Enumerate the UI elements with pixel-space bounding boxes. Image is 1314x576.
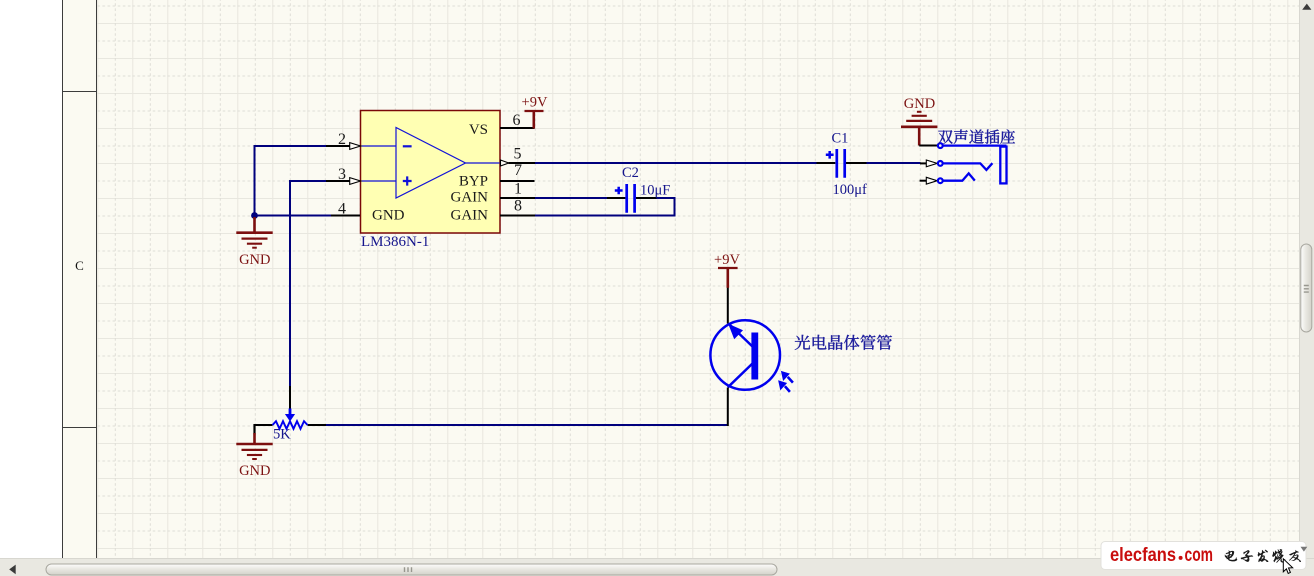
svg-text:VS: VS — [469, 122, 488, 138]
capacitor C1 — [817, 149, 867, 178]
svg-text:10μF: 10μF — [640, 183, 670, 199]
svg-text:7: 7 — [514, 162, 522, 179]
pin 4 — [331, 201, 360, 218]
watermark Chinese script — [1225, 547, 1308, 563]
junction node — [251, 212, 258, 219]
svg-text:LM386N-1: LM386N-1 — [361, 234, 429, 250]
ground GND2 pot — [236, 424, 272, 479]
op-amp U1 LM386N-1 body — [361, 111, 501, 234]
svg-text:8: 8 — [514, 197, 522, 214]
svg-text:elecfans: elecfans — [1110, 544, 1176, 566]
svg-text:5: 5 — [514, 146, 522, 163]
svg-text:3: 3 — [338, 166, 346, 183]
pin 8 — [500, 197, 535, 215]
svg-text:6: 6 — [513, 112, 521, 129]
wire pin3 horizontal — [290, 180, 330, 182]
wire pin5 output run — [534, 162, 817, 164]
pin 3 — [326, 166, 361, 184]
power +9V at Q1 — [714, 252, 740, 288]
mouse cursor — [1283, 559, 1292, 574]
light arrows into Q1 — [779, 372, 793, 392]
capacitor C2 — [607, 184, 657, 213]
svg-text:100μf: 100μf — [833, 182, 868, 198]
wire pin1 to C2 — [534, 197, 607, 199]
svg-text:+9V: +9V — [522, 95, 548, 111]
svg-text:C2: C2 — [622, 165, 639, 181]
wire +9V to Q1 collector — [727, 287, 729, 324]
net label stereo jack Chinese — [938, 130, 953, 144]
pin 1 — [500, 180, 535, 198]
svg-text:2: 2 — [338, 131, 346, 148]
wire pin3 to potentiometer wiper — [289, 180, 291, 387]
svg-text:+9V: +9V — [714, 252, 740, 268]
svg-text:GND: GND — [904, 96, 935, 112]
watermark elecfans box — [1101, 542, 1306, 570]
wire left vertical pin2 to junction — [254, 145, 256, 216]
pin 7 — [500, 162, 535, 181]
jack bottom pin stub and arrow — [920, 177, 938, 184]
svg-text:4: 4 — [338, 201, 346, 218]
wire pin4 horizontal — [255, 215, 332, 217]
svg-text:com: com — [1185, 544, 1214, 566]
power +9V at pin 6 — [522, 95, 548, 129]
right scrollbar — [1299, 0, 1314, 558]
phototransistor Q1 — [710, 320, 780, 390]
potentiometer 5K — [255, 386, 327, 429]
wire pot to phototransistor emitter — [326, 424, 728, 426]
svg-text:GAIN: GAIN — [451, 208, 489, 224]
stereo jack J1 — [938, 143, 1007, 183]
svg-text:GND: GND — [372, 208, 405, 224]
wire pin2 horizontal — [255, 145, 331, 147]
jack middle pin stub and arrow — [920, 160, 937, 167]
wire C1 to jack — [867, 162, 921, 164]
svg-text:C: C — [75, 258, 84, 273]
label phototransistor Chinese — [795, 335, 810, 350]
wire C2 right loop — [534, 198, 675, 216]
svg-text:5K: 5K — [273, 427, 291, 443]
sheet border column — [63, 0, 97, 558]
pin 6 — [500, 112, 535, 129]
pin 5 — [501, 146, 536, 167]
svg-text:1: 1 — [514, 180, 522, 197]
ground GND3 jack inverted — [901, 96, 937, 146]
wire GND3 to jack top pin — [919, 145, 937, 147]
svg-text:C1: C1 — [832, 130, 849, 146]
svg-text:BYP: BYP — [459, 174, 488, 190]
wire Q1 emitter down — [727, 388, 729, 427]
svg-text:GND: GND — [239, 252, 270, 268]
pin 2 — [326, 131, 361, 149]
bottom scrollbar — [0, 558, 1314, 576]
ground GND1 input junction — [236, 217, 272, 268]
svg-text:GND: GND — [239, 463, 270, 479]
svg-text:GAIN: GAIN — [451, 190, 489, 206]
